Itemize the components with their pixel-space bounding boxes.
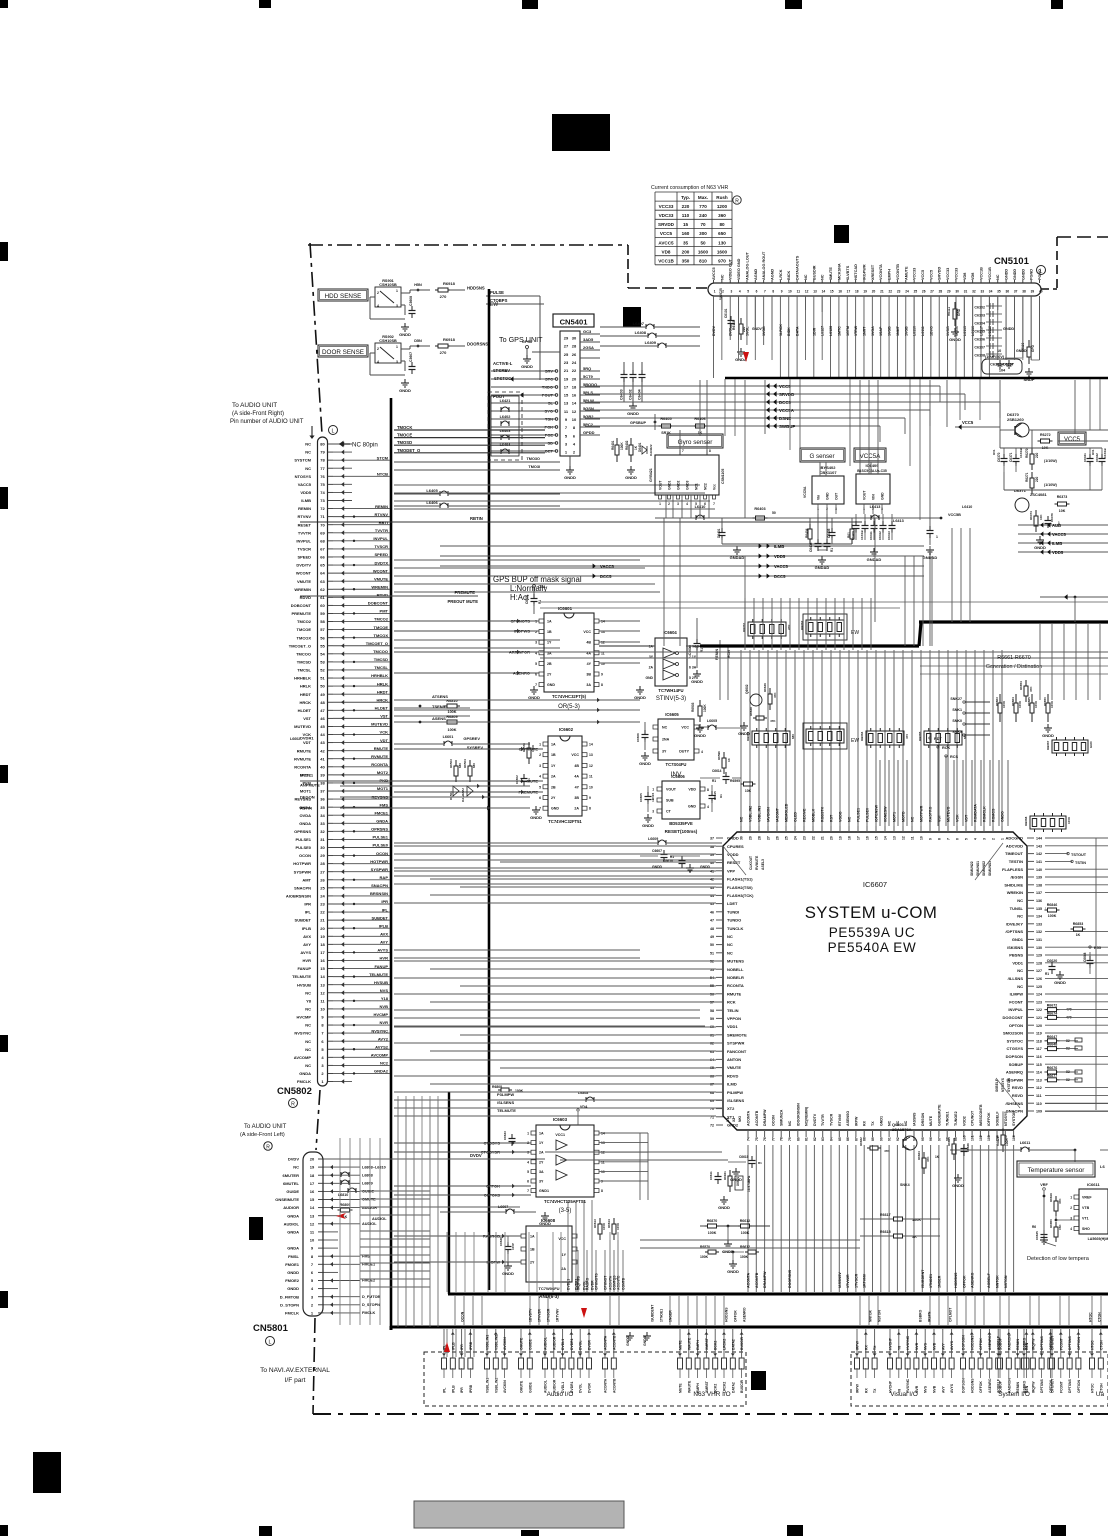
svg-text:MOT2: MOT2: [377, 770, 389, 775]
svg-text:OPTION: OPTION: [1077, 1379, 1081, 1393]
heavy bus line y646: [700, 644, 919, 647]
svg-text:1: 1: [659, 502, 661, 506]
svg-text:ANTON: ANTON: [727, 1057, 741, 1062]
svg-text:100K: 100K: [1048, 914, 1057, 918]
svg-text:TMCOET_O: TMCOET_O: [366, 641, 388, 646]
svg-text:7: 7: [682, 449, 684, 453]
svg-text:VCC1: VCC1: [555, 1133, 565, 1137]
svg-text:BICK: BICK: [787, 270, 791, 280]
svg-text:OPRSNS: OPRSNS: [294, 829, 311, 834]
svg-text:8: 8: [573, 425, 576, 430]
svg-text:9: 9: [928, 838, 932, 840]
svg-text:R6853: R6853: [1073, 922, 1084, 926]
svg-text:Temperature sensor: Temperature sensor: [1028, 1167, 1086, 1174]
svg-text:NC(REMIN): NC(REMIN): [805, 1106, 809, 1126]
svg-text:/OPENSW: /OPENSW: [875, 804, 879, 822]
svg-text:1VOL: 1VOL: [745, 326, 749, 336]
svg-text:CT: CT: [666, 810, 672, 814]
svg-text:PULSE0: PULSE0: [295, 845, 311, 850]
svg-text:NC: NC: [821, 274, 825, 280]
svg-text:220: 220: [1035, 452, 1039, 458]
IC6607 right pins: [1027, 837, 1034, 839]
svg-text:R6918: R6918: [443, 337, 456, 342]
svg-text:22: 22: [320, 910, 325, 915]
svg-text:96: 96: [929, 1137, 933, 1141]
svg-text:4B: 4B: [574, 764, 579, 768]
svg-text:18: 18: [855, 290, 859, 294]
svg-text:100K: 100K: [1034, 700, 1038, 708]
svg-text:33: 33: [980, 290, 984, 294]
svg-text:NC: NC: [888, 1120, 892, 1126]
svg-text:DVDR: DVDR: [591, 1280, 595, 1290]
svg-text:VCC5: VCC5: [1064, 437, 1081, 443]
svg-text:TMOSD: TMOSD: [397, 440, 412, 445]
red arrow audio L: [336, 1213, 346, 1219]
svg-text:47K: 47K: [884, 1149, 890, 1153]
svg-text:IPL: IPL: [305, 910, 312, 915]
svg-text:Pin number of AUDIO UNIT: Pin number of AUDIO UNIT: [230, 419, 304, 425]
svg-text:35: 35: [320, 805, 325, 810]
svg-text:NC: NC: [305, 1007, 311, 1012]
svg-text:4: 4: [311, 1286, 314, 1291]
svg-text:PULSE1: PULSE1: [372, 835, 388, 840]
svg-text:R6504: R6504: [463, 759, 467, 768]
svg-text:13: 13: [320, 982, 325, 987]
svg-text:104: 104: [999, 369, 1006, 373]
svg-text:OPRSNS: OPRSNS: [371, 827, 388, 832]
extra drop wires under CN5101: [721, 296, 723, 360]
svg-text:360: 360: [718, 213, 726, 218]
svg-text:DVDV: DVDV: [288, 1157, 299, 1162]
svg-text:3Y: 3Y: [539, 1180, 544, 1184]
ic GYB421 gyro: [655, 455, 719, 495]
svg-text:/SKISNS: /SKISNS: [1007, 945, 1023, 950]
svg-text:62: 62: [320, 587, 325, 592]
svg-text:AUDIOL: AUDIOL: [544, 1337, 548, 1350]
svg-text:ROMCS: ROMCS: [992, 808, 996, 822]
svg-text:1: 1: [396, 289, 398, 293]
labels VACC5 DCC5 left set: [593, 563, 596, 568]
svg-text:12: 12: [589, 764, 593, 768]
svg-text:12: 12: [601, 1151, 605, 1155]
svg-text:121: 121: [1036, 1016, 1042, 1020]
svg-text:GNDD: GNDD: [1003, 327, 1014, 331]
svg-text:AOBELF: AOBELF: [987, 1272, 991, 1288]
svg-text:C6601: C6601: [525, 594, 529, 604]
svg-text:GNDD: GNDD: [634, 695, 646, 700]
svg-text:TVSCR: TVSCR: [374, 544, 388, 549]
svg-text:NC: NC: [804, 274, 808, 280]
svg-text:110: 110: [682, 213, 690, 218]
bus corner turns: [390, 1326, 393, 1330]
svg-text:IRSPN: IRSPN: [928, 1311, 932, 1322]
svg-text:FANUP: FANUP: [374, 964, 388, 969]
svg-text:1TVV2R: 1TVV2R: [846, 1274, 850, 1288]
heavy vertical x449 to bus: [448, 1092, 450, 1294]
svg-text:GNDD: GNDD: [1021, 269, 1025, 280]
svg-text:10: 10: [320, 1007, 325, 1012]
svg-text:R6661-R6670: R6661-R6670: [997, 655, 1031, 661]
svg-text:8: 8: [601, 1189, 603, 1193]
svg-text:TVSCR: TVSCR: [297, 547, 311, 552]
svg-text:SIMUNS3: SIMUNS3: [988, 861, 992, 876]
svg-text:ASEL3: ASEL3: [761, 859, 765, 870]
svg-text:ACONTB: ACONTB: [755, 1110, 759, 1126]
verticals from sensors to right bundle: [951, 528, 953, 622]
svg-text:SNK1: SNK1: [952, 708, 962, 712]
svg-text:7: 7: [321, 1031, 324, 1036]
svg-text:PGND: PGND: [1038, 269, 1042, 280]
svg-text:HLDET: HLDET: [298, 708, 312, 713]
svg-text:WREMIN: WREMIN: [294, 587, 311, 592]
svg-text:6: 6: [527, 1180, 529, 1184]
svg-text:8: 8: [709, 449, 711, 453]
svg-text:84: 84: [830, 1137, 834, 1141]
svg-text:9: 9: [601, 1180, 603, 1184]
svg-text:63: 63: [320, 579, 325, 584]
svg-text:4: 4: [539, 775, 541, 779]
svg-text:7: 7: [565, 425, 568, 430]
svg-text:R1: R1: [1045, 972, 1049, 976]
svg-text:21: 21: [320, 918, 325, 923]
svg-text:NVS: NVS: [380, 988, 389, 993]
svg-text:43: 43: [320, 740, 325, 745]
svg-text:1600: 1600: [698, 249, 709, 254]
svg-text:VCC5: VCC5: [779, 384, 791, 389]
svg-text:C6615: C6615: [713, 791, 717, 800]
svg-text:DVDL1: DVDL1: [561, 1339, 565, 1350]
svg-text:GNDD: GNDD: [627, 411, 639, 416]
svg-text:AVX: AVX: [380, 931, 388, 936]
svg-text:AUB: AUB: [1052, 523, 1061, 528]
svg-text:131: 131: [1036, 938, 1042, 942]
svg-text:59: 59: [320, 611, 325, 616]
svg-text:66: 66: [320, 555, 325, 560]
svg-text:6: 6: [321, 1039, 324, 1044]
svg-text:970: 970: [718, 259, 726, 264]
svg-text:24: 24: [793, 836, 797, 840]
svg-text:Vin: Vin: [817, 495, 821, 500]
wires gyro top: [679, 436, 681, 450]
svg-text:Rush: Rush: [716, 195, 728, 200]
svg-text:2: 2: [539, 753, 541, 757]
svg-text:1GTM: 1GTM: [846, 326, 850, 336]
svg-text:C6607: C6607: [652, 849, 662, 853]
svg-text:1: 1: [539, 743, 541, 747]
svg-text:ASENRO: ASENRO: [988, 1378, 992, 1393]
svg-text:VSBL.IN2: VSBL.IN2: [494, 1378, 498, 1393]
svg-text:DUTY: DUTY: [679, 750, 689, 754]
svg-text:EW: EW: [851, 630, 859, 636]
svg-text:48: 48: [710, 927, 714, 931]
svg-text:C6106: C6106: [974, 338, 985, 342]
svg-text:2A: 2A: [574, 807, 579, 811]
resistor pack RB662 EW dashed: [806, 620, 844, 634]
svg-text:R6405: R6405: [660, 417, 671, 421]
svg-text:(1/10W): (1/10W): [1044, 483, 1058, 487]
svg-text:GNDAD: GNDAD: [815, 565, 830, 570]
svg-text:27: 27: [564, 344, 569, 349]
svg-text:220: 220: [742, 326, 746, 332]
wires TMO3O TMO3I: [394, 461, 560, 463]
svg-text:4Y: 4Y: [587, 662, 592, 666]
svg-text:L6127: L6127: [821, 326, 825, 336]
svg-text:NVB: NVB: [380, 1004, 389, 1009]
svg-text:35: 35: [997, 290, 1001, 294]
svg-text:IC6603: IC6603: [553, 1117, 568, 1122]
svg-text:NC: NC: [305, 450, 311, 455]
IC6603 right wires: [599, 1132, 648, 1134]
heavy bus line y622: [919, 620, 1108, 623]
svg-text:80: 80: [320, 442, 325, 447]
svg-text:70: 70: [320, 522, 325, 527]
svg-text:FLASH1(TS1): FLASH1(TS1): [727, 877, 753, 882]
svg-text:45: 45: [320, 724, 325, 729]
svg-text:GND1: GND1: [879, 1116, 883, 1126]
svg-text:2: 2: [321, 1071, 324, 1076]
svg-text:GNDD: GNDD: [564, 475, 576, 480]
svg-text:HVCHP: HVCHP: [889, 1337, 893, 1350]
svg-text:GND2: GND2: [727, 1123, 739, 1128]
svg-text:MUTE: MUTE: [679, 1383, 683, 1393]
svg-text:1: 1: [565, 450, 568, 455]
IC6607 top pin numbers: [740, 826, 742, 832]
svg-text:TMCO2: TMCO2: [374, 617, 389, 622]
svg-text:16: 16: [310, 1189, 315, 1194]
svg-text:DVDR1: DVDR1: [570, 1381, 574, 1393]
wire bundle mid verticals to IC: [879, 760, 881, 826]
bead group L6421 L6402 L6403 L6404 in dashed box: [491, 396, 519, 456]
svg-text:CTOH: CTOH: [1098, 1312, 1102, 1322]
svg-text:PE5540A EW: PE5540A EW: [828, 940, 917, 955]
svg-text:GNDA: GNDA: [376, 818, 388, 823]
svg-text:RSTIN: RSTIN: [300, 806, 312, 811]
svg-text:GNDA: GNDA: [287, 1230, 299, 1235]
svg-text:Current consumption of N63 VHR: Current consumption of N63 VHR: [651, 185, 729, 191]
svg-text:EW: EW: [851, 738, 859, 744]
svg-text:IRQPW: IRQPW: [1031, 1381, 1035, 1393]
svg-text:GPSBUP: GPSBUP: [630, 421, 647, 425]
svg-text:HODSNS: HODSNS: [725, 1307, 729, 1322]
svg-text:L6808: L6808: [362, 1173, 373, 1177]
svg-text:GUIDE: GUIDE: [362, 1190, 374, 1194]
svg-text:65: 65: [320, 563, 325, 568]
svg-text:11: 11: [910, 836, 914, 840]
svg-text:ACONTA: ACONTA: [604, 1335, 608, 1350]
svg-text:D_STOPN: D_STOPN: [280, 1302, 299, 1307]
svg-text:VDD5: VDD5: [1052, 550, 1064, 555]
svg-text:80: 80: [719, 222, 725, 227]
svg-text:GNDD: GNDD: [625, 475, 637, 480]
svg-text:ILMB: ILMB: [301, 498, 311, 503]
svg-text:C6405: C6405: [827, 528, 831, 538]
svg-text:NC: NC: [293, 1165, 299, 1170]
svg-text:/AVOKIN: /AVOKIN: [767, 807, 771, 822]
svg-text:NC: NC: [788, 1120, 792, 1126]
svg-text:OPTON: OPTON: [1009, 1023, 1023, 1028]
svg-text:SRVDD: SRVDD: [658, 222, 675, 227]
svg-text:32: 32: [320, 829, 325, 834]
svg-text:2SA1576A: 2SA1576A: [892, 1127, 912, 1132]
svg-text:111: 111: [1036, 1094, 1042, 1098]
svg-text:TMCSL: TMCSL: [374, 665, 388, 670]
svg-text:1: 1: [311, 1311, 314, 1316]
page border dashed: [308, 237, 1108, 1414]
svg-text:FMCLK: FMCLK: [297, 1079, 311, 1084]
svg-text:L6: L6: [1100, 1164, 1105, 1169]
svg-text:VRF: VRF: [1040, 1183, 1048, 1187]
GNDD drops pins 36-40: [1005, 352, 1007, 358]
svg-text:5CT9: 5CT9: [583, 374, 594, 379]
svg-text:L: L: [269, 1340, 272, 1346]
svg-text:FLASH3(TCK): FLASH3(TCK): [727, 893, 754, 898]
svg-text:VMUTE: VMUTE: [727, 1065, 741, 1070]
svg-text:3: 3: [396, 304, 398, 308]
svg-text:NNTOK: NNTOK: [996, 1275, 1000, 1288]
svg-text:143: 143: [1036, 844, 1042, 848]
svg-text:12: 12: [572, 409, 577, 414]
svg-text:69: 69: [320, 530, 325, 535]
svg-text:VMUTE: VMUTE: [374, 576, 388, 581]
svg-text:SYSTON: SYSTON: [1012, 1111, 1016, 1126]
wires RSVD RSVD SHSENS SNACPN to right: [1045, 1103, 1108, 1105]
svg-text:5: 5: [527, 1170, 529, 1174]
svg-text:CN5802: CN5802: [277, 1086, 312, 1097]
svg-text:42: 42: [710, 878, 714, 882]
svg-text:RTVNV: RTVNV: [838, 1113, 842, 1126]
svg-text:TMCOX: TMCOX: [374, 633, 389, 638]
svg-text:RCONTA: RCONTA: [294, 764, 311, 769]
wire ILMB row: [440, 545, 924, 547]
svg-text:220: 220: [682, 204, 690, 209]
svg-text:14: 14: [572, 401, 577, 406]
svg-text:C6413: C6413: [887, 531, 891, 540]
svg-text:116: 116: [1036, 1055, 1042, 1059]
svg-text:TMCSD: TMCSD: [374, 657, 388, 662]
svg-text:95: 95: [921, 1137, 925, 1141]
svg-text:90: 90: [879, 1137, 883, 1141]
svg-text:(1/10W): (1/10W): [1044, 459, 1058, 463]
svg-text:C6605: C6605: [639, 793, 643, 802]
svg-text:OFFOK: OFFOK: [979, 1338, 983, 1350]
svg-text:ANPMUTE: ANPMUTE: [300, 783, 320, 788]
svg-text:TUNOE1: TUNOE1: [946, 1111, 950, 1126]
svg-text:IC6601: IC6601: [558, 606, 573, 611]
svg-text:ASENSO: ASENSO: [846, 1111, 850, 1126]
svg-text:RADRON: RADRON: [1007, 1335, 1011, 1350]
svg-text:RVMUTE: RVMUTE: [294, 756, 311, 761]
svg-text:1VGB: 1VGB: [888, 326, 892, 336]
svg-text:20: 20: [572, 376, 577, 381]
svg-text:VCC: VCC: [571, 753, 579, 757]
svg-text:21: 21: [880, 290, 884, 294]
svg-text:11: 11: [310, 1230, 315, 1235]
wires TMOCK TMOCE TMOSD TMODET: [394, 429, 545, 431]
svg-text:119: 119: [1036, 1032, 1042, 1036]
svg-text:R6918: R6918: [443, 281, 456, 286]
svg-text:PULSE0: PULSE0: [372, 843, 388, 848]
svg-text:60: 60: [320, 603, 325, 608]
svg-text:68: 68: [320, 538, 325, 543]
svg-text:IC6611: IC6611: [1087, 1182, 1100, 1187]
svg-text:GUIDE: GUIDE: [528, 1339, 532, 1350]
svg-text:92: 92: [896, 1137, 900, 1141]
svg-text:RX: RX: [864, 1345, 868, 1350]
svg-text:14: 14: [310, 1205, 315, 1210]
svg-text:1TVV2R: 1TVV2R: [538, 1309, 542, 1322]
svg-text:1RTVNV: 1RTVNV: [863, 1273, 867, 1288]
svg-text:LRCK2: LRCK2: [723, 1339, 727, 1350]
svg-text:FANUP: FANUP: [297, 966, 311, 971]
labels ACONTA ACONTB column2: [609, 1240, 611, 1292]
svg-text:IRPW: IRPW: [854, 1116, 858, 1126]
svg-text:TC74VHCT125AFTS1: TC74VHCT125AFTS1: [544, 1199, 587, 1204]
svg-text:R6271: R6271: [1025, 472, 1029, 482]
svg-text:TMCOO: TMCOO: [373, 649, 388, 654]
svg-text:TMCSD: TMCSD: [297, 659, 311, 664]
svg-text:OFFOK: OFFOK: [962, 1275, 966, 1288]
svg-text:L6405: L6405: [426, 488, 438, 493]
svg-text:RB662: RB662: [800, 620, 804, 630]
svg-text:R: R: [266, 1144, 270, 1150]
svg-text:VDT: VDT: [380, 738, 389, 743]
svg-text:DEGON: DEGON: [300, 795, 315, 800]
svg-text:VACC5: VACC5: [774, 564, 789, 569]
svg-text:44: 44: [320, 732, 325, 737]
svg-text:VCC1B: VCC1B: [980, 267, 984, 280]
svg-text:10K: 10K: [745, 789, 752, 793]
svg-text:R6672: R6672: [1047, 1004, 1058, 1008]
svg-text:GNDD: GNDD: [652, 865, 663, 869]
svg-text:14: 14: [822, 290, 826, 294]
svg-text:20: 20: [872, 290, 876, 294]
svg-text:GNDA: GNDA: [299, 1071, 311, 1076]
svg-text:40: 40: [1039, 290, 1043, 294]
svg-text:Detection of low tempera: Detection of low tempera: [1027, 1256, 1090, 1262]
svg-text:TMCOX: TMCOX: [297, 635, 312, 640]
svg-text:TVVTR: TVVTR: [298, 530, 311, 535]
svg-text:4: 4: [707, 805, 709, 809]
svg-text:125: 125: [1036, 985, 1042, 989]
svg-text:21: 21: [564, 368, 569, 373]
svg-text:ASENRO: ASENRO: [988, 1335, 992, 1350]
svg-text:TSTOUT: TSTOUT: [1071, 853, 1087, 857]
svg-text:DVDL1: DVDL1: [300, 773, 314, 778]
svg-text:1VGB: 1VGB: [946, 326, 950, 336]
svg-text:DATA2: DATA2: [731, 1339, 735, 1350]
svg-text:1RTVNV: 1RTVNV: [556, 1308, 560, 1322]
svg-text:19: 19: [838, 836, 842, 840]
svg-text:7: 7: [764, 290, 766, 294]
svg-text:RCM: RCM: [727, 650, 731, 658]
svg-text:FLAPLESS: FLAPLESS: [1002, 867, 1023, 872]
transistor Q6602 area: [750, 694, 762, 706]
svg-text:240: 240: [699, 213, 707, 218]
wire verticals sensors to heavy bus: [663, 518, 665, 646]
svg-text:VDT: VDT: [965, 814, 969, 822]
svg-text:HVSYNC: HVSYNC: [906, 1378, 910, 1393]
svg-text:SHO: SHO: [1082, 1227, 1090, 1231]
wires right of IC6607: [1045, 837, 1108, 839]
svg-text:L6421: L6421: [500, 399, 511, 403]
svg-text:B55: B55: [1094, 946, 1101, 950]
svg-text:VD8: VD8: [963, 273, 967, 280]
svg-text:AVY: AVY: [941, 1343, 945, 1350]
svg-text:DVDTX: DVDTX: [374, 560, 388, 565]
svg-text:CTOH: CTOH: [1099, 1340, 1103, 1350]
svg-text:56: 56: [320, 635, 325, 640]
svg-text:SOBUP: SOBUP: [999, 1380, 1003, 1393]
